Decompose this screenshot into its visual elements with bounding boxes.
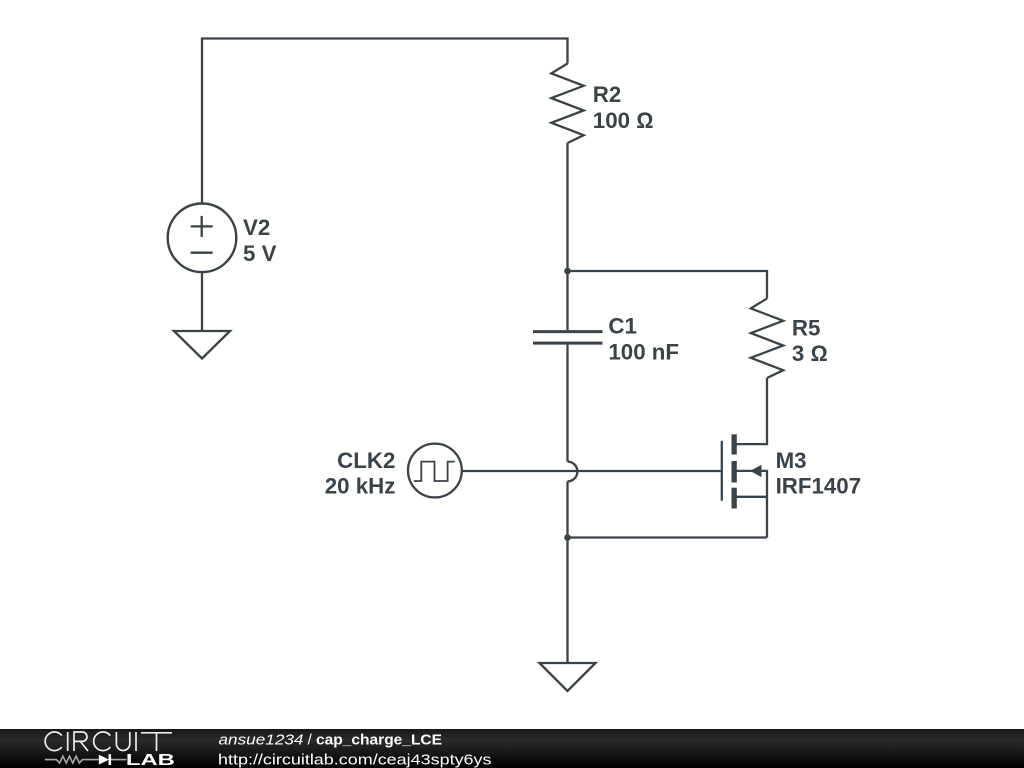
svg-text:http://circuitlab.com/ceaj43sp: http://circuitlab.com/ceaj43spty6ys <box>218 751 492 768</box>
logo resistor wire <box>45 756 127 763</box>
svg-text:M3: M3 <box>776 448 807 473</box>
ground center triangle <box>540 663 596 691</box>
wire gate from CLK2 to M3 <box>462 470 721 472</box>
clock source CLK2 circle <box>408 444 462 498</box>
logo diode <box>99 755 109 765</box>
logo CIRCUIT wordmark <box>45 732 172 751</box>
footer bar <box>0 729 1024 768</box>
svg-text:100 Ω: 100 Ω <box>593 108 654 133</box>
voltage source V2 circle <box>168 204 237 273</box>
V2 minus sign <box>191 252 213 254</box>
resistor R5 zigzag <box>751 299 783 379</box>
wire M3 source stub and down to bottom rail <box>734 471 767 538</box>
svg-text:CLK2: CLK2 <box>337 448 395 473</box>
transistor M3 channel bars <box>732 434 737 508</box>
wire node A to C1 top plate <box>566 271 568 330</box>
svg-text:100 nF: 100 nF <box>608 340 679 365</box>
wire C1 bottom plate down to hop <box>566 345 568 462</box>
svg-text:R5: R5 <box>792 315 821 340</box>
svg-text:LAB: LAB <box>126 752 175 768</box>
svg-text:20 kHz: 20 kHz <box>325 473 396 498</box>
svg-text:C1: C1 <box>608 314 637 339</box>
wire R5 bottom to M3 drain <box>734 378 767 444</box>
ground left triangle <box>174 331 230 359</box>
node A junction dot <box>564 268 571 275</box>
svg-text:5 V: 5 V <box>243 241 277 266</box>
CLK2 square wave glyph <box>414 462 455 481</box>
transistor M3 body arrow <box>750 465 762 477</box>
wire node B down to ground <box>566 538 568 664</box>
wire hop over gate wire <box>568 462 578 482</box>
wire node A to R5 top <box>568 271 768 299</box>
svg-text:ansue1234 / cap_charge_LCE: ansue1234 / cap_charge_LCE <box>219 732 443 749</box>
svg-text:3 Ω: 3 Ω <box>792 341 828 366</box>
transistor M3 gate bar <box>721 441 723 501</box>
svg-text:R2: R2 <box>593 82 622 107</box>
V2 plus sign <box>191 225 213 227</box>
wire M3 bottom stub <box>734 496 767 498</box>
wire V2 minus terminal to ground <box>201 272 203 331</box>
svg-text:IRF1407: IRF1407 <box>776 474 862 499</box>
wire top-left: V2 plus terminal up, across top, down to R2 <box>202 39 568 205</box>
svg-text:V2: V2 <box>243 215 270 240</box>
wire bottom rail node B to M3 source <box>568 536 768 538</box>
node B junction dot <box>564 534 571 541</box>
wire hop to node B <box>566 481 568 537</box>
capacitor C1 plates <box>533 332 603 344</box>
resistor R2 zigzag <box>551 64 583 144</box>
wire R2 bottom to node A <box>566 143 568 271</box>
